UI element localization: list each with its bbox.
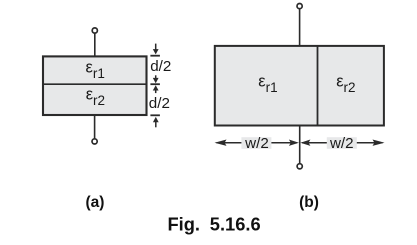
- svg-text:d/2: d/2: [149, 95, 170, 112]
- svg-text:Fig.: Fig.: [168, 214, 201, 235]
- svg-text:(a): (a): [86, 194, 105, 211]
- svg-text:w/2: w/2: [244, 135, 269, 152]
- svg-text:w/2: w/2: [329, 135, 354, 152]
- svg-text:d/2: d/2: [150, 58, 171, 75]
- svg-text:5.16.6: 5.16.6: [210, 214, 261, 235]
- svg-text:(b): (b): [299, 194, 319, 211]
